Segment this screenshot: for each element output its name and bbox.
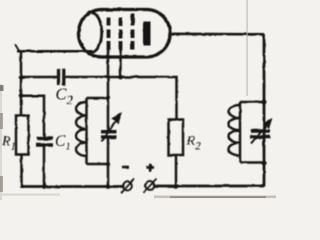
capacitor C2 plates — [57, 69, 60, 85]
node junction rail-C2 — [19, 75, 24, 80]
variable capacitor CV1 plates — [101, 130, 117, 133]
wire coil L2 bottom — [240, 161, 264, 164]
wire coil L1 top — [87, 97, 109, 100]
inductor L1 loops — [76, 102, 87, 156]
node junction rail coil top — [262, 100, 267, 105]
node junction coil bottom — [106, 162, 110, 166]
scan artifact bottom right band darker core — [170, 196, 266, 198]
paper background — [0, 0, 280, 200]
node junction pin2 on C2 wire — [118, 75, 123, 80]
wire tube pin 2 down — [119, 48, 122, 77]
wire C2 left segment — [21, 76, 57, 79]
wire tube left lead to left rail — [17, 50, 92, 53]
wire CV1 bottom lead to bus — [107, 139, 110, 188]
scan artifact left edge band — [0, 84, 2, 200]
wire bottom bus left — [21, 185, 123, 188]
resistor R1 — [16, 116, 29, 155]
node junction pin1 tank top — [106, 96, 111, 101]
variable capacitor CV1 arrow — [102, 119, 117, 142]
variable capacitor CV2 plates — [251, 129, 271, 132]
wire bottom bus right — [155, 185, 265, 188]
wire C1 bottom lead — [43, 147, 46, 187]
wire C1 top branch — [21, 96, 44, 137]
scan artifact vertical line top right — [246, 0, 248, 96]
variable capacitor CV2 arrow — [251, 124, 268, 145]
wire rail bottom corner — [20, 186, 23, 188]
scan artifact left edge blob 1 — [0, 85, 4, 91]
scan artifact left edge blob 3 — [0, 176, 3, 192]
inductor L2 body line — [239, 102, 242, 163]
tick at wire start — [15, 45, 19, 52]
inductor L1 body line — [85, 98, 88, 164]
inductor L2 loops — [228, 105, 240, 155]
wire left rail vertical top — [20, 51, 23, 117]
tube grid column 1 dashes — [107, 18, 111, 50]
terminal circle minus — [123, 182, 132, 191]
label minus terminal — [123, 166, 130, 169]
wire R1 bottom lead — [20, 154, 23, 188]
scan artifact bottom left band — [2, 194, 60, 196]
scan artifact left edge blob 2 — [0, 113, 3, 129]
vacuum tube U1 envelope — [79, 10, 171, 58]
capacitor C1 plates — [37, 137, 53, 140]
resistor R2 — [169, 120, 184, 156]
scan artifact bottom right band — [154, 196, 276, 199]
wire R2 bottom lead — [175, 155, 178, 187]
wire pin2 to R2 top — [121, 77, 177, 120]
tube anode plate — [143, 22, 151, 46]
node junction C1 bus — [42, 184, 47, 189]
node junction rail-C1 — [19, 93, 24, 98]
terminal circle plus — [145, 181, 154, 190]
wire tube pin 1 (grid) down — [107, 48, 110, 131]
wire anode lead to right rail — [169, 32, 264, 35]
label plus terminal — [147, 166, 155, 169]
node junction rail coil bottom — [262, 161, 267, 166]
vacuum tube cathode arc — [92, 13, 102, 52]
wire C2 right segment to pin2 — [66, 76, 121, 79]
wire coil L1 bottom — [87, 163, 109, 166]
tube grid column 2 dashes — [119, 18, 123, 50]
wire coil L2 top — [240, 101, 264, 104]
wire right rail vertical — [263, 34, 266, 187]
node junction main vertical bus — [106, 184, 111, 189]
tube grid column 3 dashes — [131, 14, 135, 50]
node junction R2 bus — [174, 184, 179, 189]
